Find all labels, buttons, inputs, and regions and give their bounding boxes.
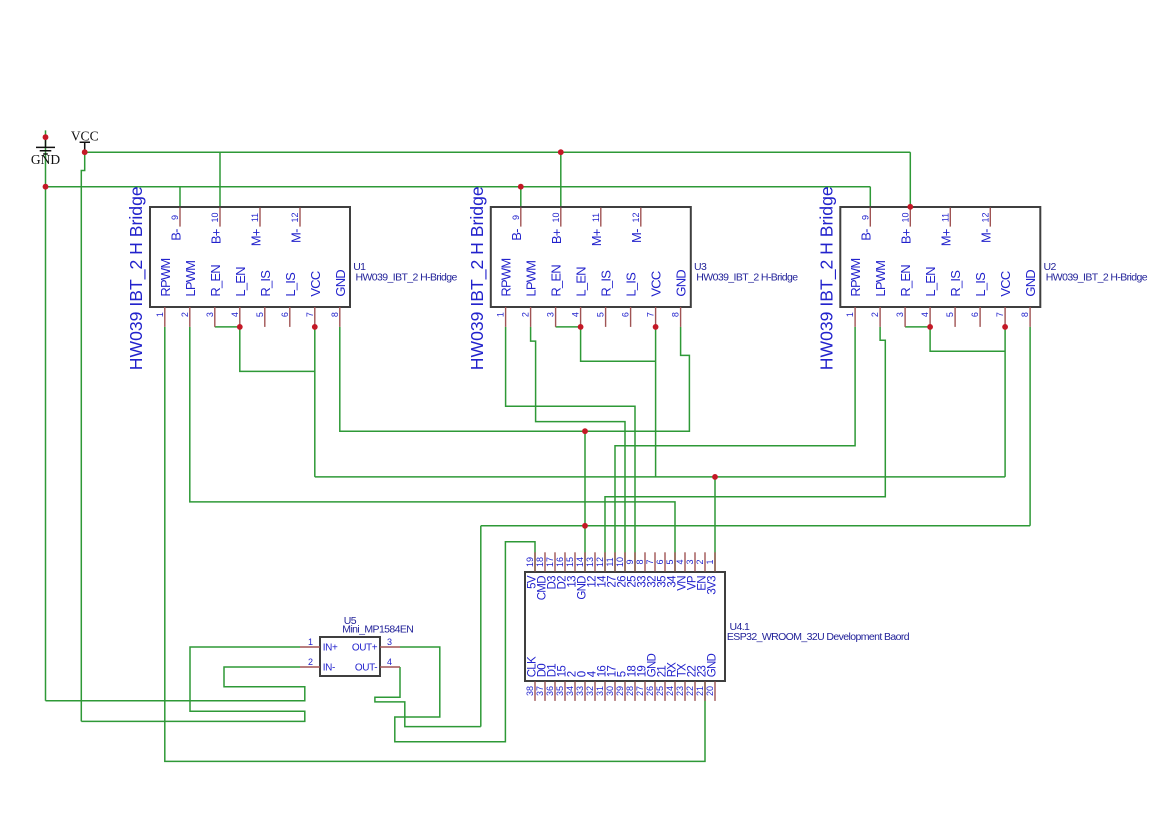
wire GND U1 pin8 to U3 pin8: [340, 327, 690, 431]
U4.1 pin 4 (VN): [675, 552, 688, 590]
U4.1 pin 29 (5): [615, 671, 628, 701]
svg-text:R_IS: R_IS: [258, 270, 273, 297]
U2 pin 2 (LPWM): [870, 261, 888, 327]
svg-text:4: 4: [920, 312, 930, 317]
svg-text:11: 11: [250, 213, 260, 222]
svg-text:8: 8: [671, 312, 681, 317]
U1 pin 4 (L_EN): [230, 267, 248, 327]
wire GND vertical: [45, 130, 47, 700]
svg-text:HW039_IBT_2 H-Bridge: HW039_IBT_2 H-Bridge: [696, 272, 798, 284]
U4.1 pin 1 (3V3): [705, 552, 718, 594]
junction: [518, 184, 524, 190]
svg-text:7: 7: [995, 312, 1005, 317]
wire U1 pin3 to pin4: [215, 326, 240, 328]
svg-text:ESP32_WROOM_32U Development Ba: ESP32_WROOM_32U Development Baord: [727, 631, 910, 643]
svg-text:VCC: VCC: [998, 271, 1013, 296]
U1 pin 12 (M-): [288, 208, 303, 243]
U4.1 pin 22 (22): [685, 666, 698, 701]
svg-text:GND: GND: [333, 270, 348, 297]
svg-text:8: 8: [330, 312, 340, 317]
U2 pin 4 (L_EN): [920, 267, 938, 327]
U4.1 pin 38 (CLK): [525, 656, 538, 701]
wire U2 LPWM to U4.1 pin12: [605, 327, 885, 572]
svg-text:HW039 IBT_2 H Bridge: HW039 IBT_2 H Bridge: [126, 186, 147, 370]
svg-text:GND: GND: [674, 270, 689, 297]
svg-text:GND: GND: [707, 653, 719, 677]
U3 pin 3 (R_EN): [546, 265, 564, 327]
U4.1 pin 3 (VP): [685, 552, 698, 590]
svg-text:LPWM: LPWM: [873, 261, 888, 297]
wire VCC to U2 B+: [909, 152, 911, 207]
U4.1 pin 35 (15): [555, 666, 568, 701]
wire GND to U4.1 pin14: [584, 431, 586, 572]
wire U2 RPWM to U4.1 pin11: [615, 327, 855, 572]
junction: [712, 474, 718, 480]
svg-text:33: 33: [575, 686, 585, 696]
wire U5 OUT- to GND: [375, 667, 481, 727]
svg-text:27: 27: [635, 686, 645, 696]
U2 pin 12 (M-): [979, 208, 994, 243]
svg-text:R_EN: R_EN: [208, 265, 223, 297]
svg-text:IN+: IN+: [323, 642, 338, 653]
svg-text:10: 10: [210, 212, 220, 222]
svg-text:11: 11: [940, 213, 950, 222]
U4.1 pin 15 (13): [565, 552, 578, 587]
svg-text:2: 2: [308, 657, 313, 667]
svg-text:2: 2: [521, 312, 531, 317]
wire VCC to U5 IN+: [81, 647, 304, 721]
junction: [653, 324, 659, 330]
U4.1 pin 24 (RX): [665, 662, 678, 701]
wire U1 RPWM to U4.1 pin21: [165, 327, 705, 762]
U1 pin 9 (B-): [168, 208, 183, 241]
svg-text:9: 9: [511, 215, 521, 220]
svg-text:B+: B+: [899, 229, 914, 244]
svg-text:B-: B-: [168, 229, 183, 241]
U3 pin 5 (R_IS): [596, 270, 614, 327]
U5 pin 1 (IN+): [300, 637, 338, 653]
svg-text:L_IS: L_IS: [973, 272, 988, 297]
U4.1 pin 2 (EN): [695, 552, 708, 590]
svg-text:31: 31: [595, 686, 605, 696]
U4.1 pin 36 (D1): [545, 664, 558, 701]
svg-text:15: 15: [565, 557, 575, 567]
svg-text:RPWM: RPWM: [158, 259, 173, 297]
U3 pin 12 (M-): [629, 208, 644, 243]
wire 3V3 to U4.1 pin1: [714, 477, 716, 572]
svg-text:3V3: 3V3: [706, 576, 718, 595]
U2 pin 3 (R_EN): [895, 265, 913, 327]
H-bridge module U3 body: [491, 207, 691, 307]
svg-text:13: 13: [585, 557, 595, 567]
svg-text:6: 6: [621, 312, 631, 317]
wire GND to U5 IN-: [46, 667, 305, 701]
U2 pin 5 (R_IS): [945, 270, 963, 327]
svg-text:37: 37: [535, 686, 545, 696]
svg-text:HW039_IBT_2 H-Bridge: HW039_IBT_2 H-Bridge: [356, 272, 458, 284]
U2 pin 10 (B+): [899, 208, 914, 244]
svg-text:2: 2: [695, 559, 705, 564]
wire GND lower bus: [481, 525, 1030, 527]
U4.1 pin 16 (D2): [555, 552, 568, 589]
H-bridge module U2 body: [840, 207, 1040, 307]
wire GND bus drop: [480, 526, 482, 727]
svg-text:1: 1: [155, 312, 165, 317]
U4.1 pin 21 (23): [695, 666, 708, 701]
U1 pin 7 (VCC): [305, 271, 323, 327]
wire GND rail: [46, 186, 871, 188]
U4.1 pin 13 (12): [585, 552, 598, 587]
junction: [578, 324, 584, 330]
svg-text:8: 8: [635, 559, 645, 564]
svg-text:3: 3: [387, 637, 392, 647]
U1 pin 1 (RPWM): [155, 259, 173, 327]
U4.1 pin 18 (CMD): [535, 552, 548, 600]
svg-text:M+: M+: [248, 229, 263, 246]
junction: [82, 149, 88, 155]
wire U2 pin3 to pin4: [905, 326, 930, 328]
svg-text:L_EN: L_EN: [574, 267, 589, 297]
svg-text:24: 24: [665, 686, 675, 696]
U1 pin 8 (GND): [330, 270, 348, 327]
svg-text:L_EN: L_EN: [233, 267, 248, 297]
svg-text:6: 6: [655, 559, 665, 564]
svg-text:M+: M+: [939, 229, 954, 246]
svg-text:25: 25: [655, 686, 665, 696]
svg-text:IN-: IN-: [323, 662, 335, 673]
svg-text:30: 30: [605, 686, 615, 696]
regulator module U5 body: [320, 637, 380, 676]
wire GND to U3 B-: [520, 187, 522, 207]
svg-text:7: 7: [645, 559, 655, 564]
svg-text:B+: B+: [208, 229, 223, 244]
wire 3V3 to U2 pin7: [1004, 327, 1006, 477]
U3 pin 6 (L_IS): [621, 272, 639, 327]
U4.1 pin 11 (27): [605, 552, 618, 587]
U2 pin 9 (B-): [859, 208, 874, 241]
svg-text:5: 5: [255, 312, 265, 317]
U3 pin 9 (B-): [509, 208, 524, 241]
svg-text:12: 12: [290, 212, 300, 222]
U4.1 pin 30 (17): [605, 666, 618, 701]
svg-text:8: 8: [1020, 312, 1030, 317]
U4.1 pin 19 (5V): [525, 552, 538, 589]
svg-text:14: 14: [575, 557, 585, 567]
ground symbol GND: [31, 137, 60, 167]
svg-text:VCC: VCC: [71, 129, 99, 144]
svg-text:4: 4: [387, 657, 392, 667]
svg-text:5: 5: [665, 559, 675, 564]
U3 pin 4 (L_EN): [571, 267, 589, 327]
power symbol VCC: [71, 129, 99, 153]
U4.1 pin 10 (26): [615, 552, 628, 587]
U5 pin 3 (OUT+): [352, 637, 400, 653]
svg-text:26: 26: [645, 686, 655, 696]
U1 pin 2 (LPWM): [180, 261, 198, 327]
wire VCC to U1 B+: [219, 152, 221, 207]
U4.1 pin 23 (TX): [675, 663, 688, 701]
svg-text:M-: M-: [629, 229, 644, 243]
U3 pin 7 (VCC): [646, 271, 664, 327]
U4.1 pin 12 (14): [595, 552, 608, 587]
U1 pin 11 (M+): [248, 208, 263, 247]
wire U3 pin4 branch: [581, 327, 656, 361]
wire U4.1 5V to U5 OUT+: [395, 542, 535, 742]
wire VCC rail: [85, 151, 911, 153]
svg-text:29: 29: [615, 686, 625, 696]
wire U3 RPWM to U4.1 pin9: [506, 327, 635, 572]
wire VCC to U3 B+: [560, 152, 562, 207]
svg-text:9: 9: [625, 559, 635, 564]
U1 pin 10 (B+): [208, 208, 223, 244]
wire U3 pin3 to pin4: [556, 326, 581, 328]
svg-text:20: 20: [705, 686, 715, 696]
U2 pin 8 (GND): [1020, 270, 1038, 327]
svg-text:LPWM: LPWM: [183, 261, 198, 297]
svg-text:L_IS: L_IS: [283, 272, 298, 297]
U3 pin 2 (LPWM): [521, 261, 539, 327]
svg-text:11: 11: [605, 557, 615, 566]
U4.1 pin 32 (4): [585, 670, 598, 701]
svg-text:RPWM: RPWM: [499, 259, 514, 297]
U4.1 pin 27 (19): [635, 666, 648, 701]
U2 pin 11 (M+): [939, 208, 954, 247]
svg-text:RPWM: RPWM: [848, 259, 863, 297]
svg-text:22: 22: [685, 686, 695, 696]
U2 pin 6 (L_IS): [970, 272, 988, 327]
svg-text:2: 2: [180, 312, 190, 317]
svg-text:12: 12: [980, 212, 990, 222]
svg-text:M+: M+: [589, 229, 604, 246]
svg-text:6: 6: [970, 312, 980, 317]
svg-text:1: 1: [845, 312, 855, 317]
svg-text:R_EN: R_EN: [549, 265, 564, 297]
U3 pin 11 (M+): [589, 208, 604, 247]
wire 3V3 bus: [315, 476, 1005, 478]
svg-text:6: 6: [280, 312, 290, 317]
U4.1 pin 34 (2): [565, 671, 578, 701]
junction: [558, 149, 564, 155]
U3 pin 8 (GND): [671, 270, 689, 327]
svg-text:10: 10: [900, 212, 910, 222]
svg-text:10: 10: [551, 212, 561, 222]
junction: [927, 324, 933, 330]
U4.1 pin 20 (GND): [705, 653, 718, 700]
U4.1 pin 7 (32): [645, 552, 658, 587]
U3 pin 10 (B+): [549, 208, 564, 244]
junction: [237, 324, 243, 330]
svg-text:L_IS: L_IS: [624, 272, 639, 297]
svg-text:9: 9: [170, 215, 180, 220]
svg-text:HW039 IBT_2 H Bridge: HW039 IBT_2 H Bridge: [467, 186, 488, 370]
U4.1 pin 8 (33): [635, 552, 648, 587]
U4.1 pin 5 (34): [665, 552, 678, 587]
U4.1 pin 31 (16): [595, 666, 608, 701]
svg-text:21: 21: [695, 686, 705, 696]
U4.1 pin 6 (35): [655, 552, 668, 587]
svg-text:1: 1: [705, 559, 715, 564]
junction: [582, 428, 588, 434]
wire U1 LPWM to U4.1 pin5: [190, 327, 675, 572]
svg-text:12: 12: [595, 557, 605, 567]
wire U1 pin4 branch: [240, 327, 315, 372]
svg-text:3: 3: [205, 312, 215, 317]
wire U1 pin7 drop: [314, 327, 316, 477]
H-bridge module U1 body: [150, 207, 350, 307]
svg-text:B-: B-: [509, 229, 524, 241]
svg-text:3: 3: [685, 559, 695, 564]
U4.1 pin 26 (GND): [645, 653, 658, 700]
U4.1 pin 33 (0): [575, 671, 588, 701]
U2 pin 7 (VCC): [995, 271, 1013, 327]
svg-text:18: 18: [535, 557, 545, 567]
wire GND to U2 B-: [869, 187, 871, 207]
svg-text:38: 38: [525, 686, 535, 696]
svg-text:4: 4: [571, 312, 581, 317]
svg-text:B-: B-: [859, 229, 874, 241]
svg-text:Mini_MP1584EN: Mini_MP1584EN: [342, 624, 413, 636]
svg-text:17: 17: [545, 557, 555, 567]
svg-text:23: 23: [675, 686, 685, 696]
U1 pin 5 (R_IS): [255, 270, 273, 327]
junction: [43, 134, 49, 140]
svg-text:VCC: VCC: [649, 271, 664, 296]
svg-text:34: 34: [565, 686, 575, 696]
U4.1 pin 37 (D0): [535, 664, 548, 701]
wire VCC feed down: [81, 152, 84, 721]
svg-text:10: 10: [615, 557, 625, 567]
svg-text:4: 4: [675, 559, 685, 564]
svg-text:2: 2: [870, 312, 880, 317]
U5 pin 2 (IN-): [300, 657, 335, 673]
U2 pin 1 (RPWM): [845, 259, 863, 327]
svg-text:36: 36: [545, 686, 555, 696]
svg-text:4: 4: [230, 312, 240, 317]
svg-text:R_IS: R_IS: [599, 270, 614, 297]
svg-text:5: 5: [596, 312, 606, 317]
svg-text:B+: B+: [549, 229, 564, 244]
svg-text:OUT-: OUT-: [355, 662, 377, 673]
wire U2 pin4 branch: [930, 327, 1005, 351]
svg-text:16: 16: [555, 557, 565, 567]
svg-text:GND: GND: [1023, 270, 1038, 297]
svg-text:11: 11: [591, 213, 601, 222]
svg-text:35: 35: [555, 686, 565, 696]
svg-text:R_EN: R_EN: [898, 265, 913, 297]
U3 pin 1 (RPWM): [496, 259, 514, 327]
svg-text:5: 5: [945, 312, 955, 317]
svg-text:OUT+: OUT+: [352, 642, 378, 653]
U1 pin 6 (L_IS): [280, 272, 298, 327]
wire U3 pin7 drop: [655, 327, 657, 477]
U4.1 pin 9 (25): [625, 552, 638, 587]
svg-text:L_EN: L_EN: [923, 267, 938, 297]
svg-text:28: 28: [625, 686, 635, 696]
U5 pin 4 (OUT-): [355, 657, 400, 673]
ESP32 module U4.1 body: [525, 572, 725, 681]
svg-text:HW039 IBT_2 H Bridge: HW039 IBT_2 H Bridge: [817, 186, 838, 370]
svg-text:7: 7: [305, 312, 315, 317]
U4.1 pin 25 (21): [655, 666, 668, 701]
svg-text:32: 32: [585, 686, 595, 696]
svg-text:3: 3: [546, 312, 556, 317]
svg-text:HW039_IBT_2 H-Bridge: HW039_IBT_2 H-Bridge: [1046, 272, 1148, 284]
U4.1 pin 14 (GND): [575, 552, 588, 599]
svg-text:R_IS: R_IS: [948, 270, 963, 297]
junction: [43, 184, 49, 190]
svg-text:3: 3: [895, 312, 905, 317]
svg-text:1: 1: [496, 312, 506, 317]
wire GND to U2 pin8: [1029, 327, 1031, 526]
wire U3 LPWM to U4.1 pin10: [531, 327, 625, 572]
svg-text:M-: M-: [979, 229, 994, 243]
junction: [582, 523, 588, 529]
svg-text:7: 7: [646, 312, 656, 317]
svg-text:GND: GND: [31, 152, 60, 167]
svg-text:12: 12: [631, 212, 641, 222]
svg-text:VCC: VCC: [308, 271, 323, 296]
junction: [312, 324, 318, 330]
svg-text:LPWM: LPWM: [524, 261, 539, 297]
svg-text:9: 9: [860, 215, 870, 220]
svg-text:M-: M-: [288, 229, 303, 243]
junction: [1002, 324, 1008, 330]
wire GND to U1 B-: [179, 187, 181, 207]
U1 pin 3 (R_EN): [205, 265, 223, 327]
svg-text:19: 19: [525, 557, 535, 567]
junction: [907, 204, 913, 210]
U4.1 pin 28 (18): [625, 666, 638, 701]
svg-text:1: 1: [308, 637, 313, 647]
U4.1 pin 17 (D3): [545, 552, 558, 589]
